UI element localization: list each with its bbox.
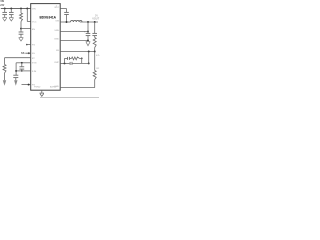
node EN junction <box>20 28 22 30</box>
capacitor C10 <box>13 75 18 77</box>
wire EN to chip <box>21 28 31 30</box>
capacitor C6 output <box>86 22 91 40</box>
wire comp top branch lead <box>65 57 68 59</box>
svg-text:VIN: VIN <box>32 8 36 10</box>
node input rail junction 4 <box>26 8 28 10</box>
capacitor C4 <box>19 63 24 71</box>
wire FB node down <box>88 52 90 64</box>
wire SS stub <box>25 52 30 54</box>
wire comp up <box>64 58 66 63</box>
svg-text:ILIM: ILIM <box>32 71 36 73</box>
svg-text:SS: SS <box>21 51 25 55</box>
svg-text:SYN: SYN <box>32 63 37 65</box>
wire R5 down <box>94 80 96 88</box>
node SNS junction <box>87 31 89 33</box>
wire PG stub <box>26 44 31 46</box>
node ILIM junction <box>15 70 17 72</box>
ground G1 <box>2 18 7 21</box>
wire GND sense <box>60 39 88 41</box>
wire ILIM <box>16 70 31 72</box>
node COMP junction <box>64 62 66 64</box>
wire GND2 <box>60 87 94 89</box>
wire cap to resistor <box>70 57 72 59</box>
node divider junction <box>94 51 96 53</box>
wire RT down <box>4 58 6 65</box>
svg-text:R2: R2 <box>96 68 100 70</box>
capacitor C2 input bypass <box>9 9 14 18</box>
node FB junction <box>88 51 90 53</box>
IC U1 body <box>31 4 61 91</box>
node SW junction <box>66 21 68 23</box>
resistor R3 feedback top <box>93 38 96 48</box>
wire VCC branch <box>27 9 30 22</box>
svg-text:47k: 47k <box>96 55 100 57</box>
capacitor C9 comp parallel <box>70 62 72 65</box>
node output junction 1 <box>87 21 89 23</box>
wire SNS to output cap top <box>60 31 88 33</box>
svg-text:BD9G341A: BD9G341A <box>40 16 57 20</box>
node output junction 2 <box>94 21 96 23</box>
wire R3 to FB node <box>94 48 96 52</box>
wire R2 down <box>4 73 6 80</box>
svg-text:VOUT: VOUT <box>92 18 99 21</box>
wire bottom rail <box>40 97 99 99</box>
wire C10 down <box>15 78 17 81</box>
node SS junction <box>28 52 30 54</box>
inductor L1 <box>71 20 83 22</box>
svg-text:VIN: VIN <box>0 1 4 3</box>
svg-text:PG: PG <box>32 45 35 47</box>
wire COMP <box>60 62 69 64</box>
wire SYNC <box>16 62 31 64</box>
capacitor C5 bootstrap <box>64 9 69 23</box>
node SYNC cap junction <box>21 62 23 64</box>
svg-text:SNS: SNS <box>54 30 59 32</box>
svg-text:BST: BST <box>55 7 60 9</box>
node input rail junction 3 <box>20 8 22 10</box>
resistor R5 feedback bottom <box>93 71 96 80</box>
ground G6 <box>86 41 91 45</box>
arrow A2 down <box>14 80 17 85</box>
arrow A1 down <box>3 80 6 85</box>
wire PGND left <box>22 84 31 86</box>
wire comp top branch end <box>80 58 82 63</box>
svg-text:FB: FB <box>56 50 59 52</box>
svg-text:24V: 24V <box>0 4 5 7</box>
capacitor C8 comp series <box>68 57 70 60</box>
node input rail junction 1 <box>4 8 6 10</box>
ground G2 <box>9 18 14 21</box>
resistor R4 comp <box>72 57 80 60</box>
wire SW <box>60 21 70 23</box>
ground G3 <box>19 38 24 41</box>
svg-text:SS: SS <box>32 53 35 55</box>
wire BST <box>60 8 66 10</box>
svg-text:GND: GND <box>54 39 59 41</box>
svg-text:PGND: PGND <box>34 87 41 89</box>
wire SYNC down <box>15 63 17 75</box>
capacitor C1 input bypass <box>2 9 7 18</box>
wire RT <box>5 57 31 59</box>
node C4 bottom junction <box>21 70 23 72</box>
node comp corner <box>88 62 90 64</box>
ground G5 chip bottom <box>40 90 44 96</box>
resistor R2 timing <box>3 65 6 74</box>
label VIN input <box>0 1 5 7</box>
capacitor C3 enable filter <box>19 29 24 38</box>
wire comp bottom branch <box>72 62 89 64</box>
node PGND junction <box>28 84 30 86</box>
node PG stub end <box>26 44 28 46</box>
wire VOUT rail <box>80 21 98 23</box>
wire FB divider down <box>94 52 96 71</box>
node input rail junction 2 <box>10 8 12 10</box>
node comp corner top <box>81 58 83 60</box>
node GND junction <box>87 39 89 41</box>
svg-text:SW: SW <box>55 21 59 23</box>
svg-text:GND: GND <box>54 86 59 88</box>
wire VIN top rail <box>1 8 31 10</box>
svg-text:EN: EN <box>32 29 35 31</box>
svg-text:CMP: CMP <box>54 62 59 64</box>
capacitor C7 output 2 <box>92 22 97 38</box>
resistor R1 enable pullup <box>20 9 23 29</box>
svg-text:RT: RT <box>32 58 36 60</box>
svg-text:VCC: VCC <box>32 22 37 24</box>
wire FB <box>60 51 94 53</box>
